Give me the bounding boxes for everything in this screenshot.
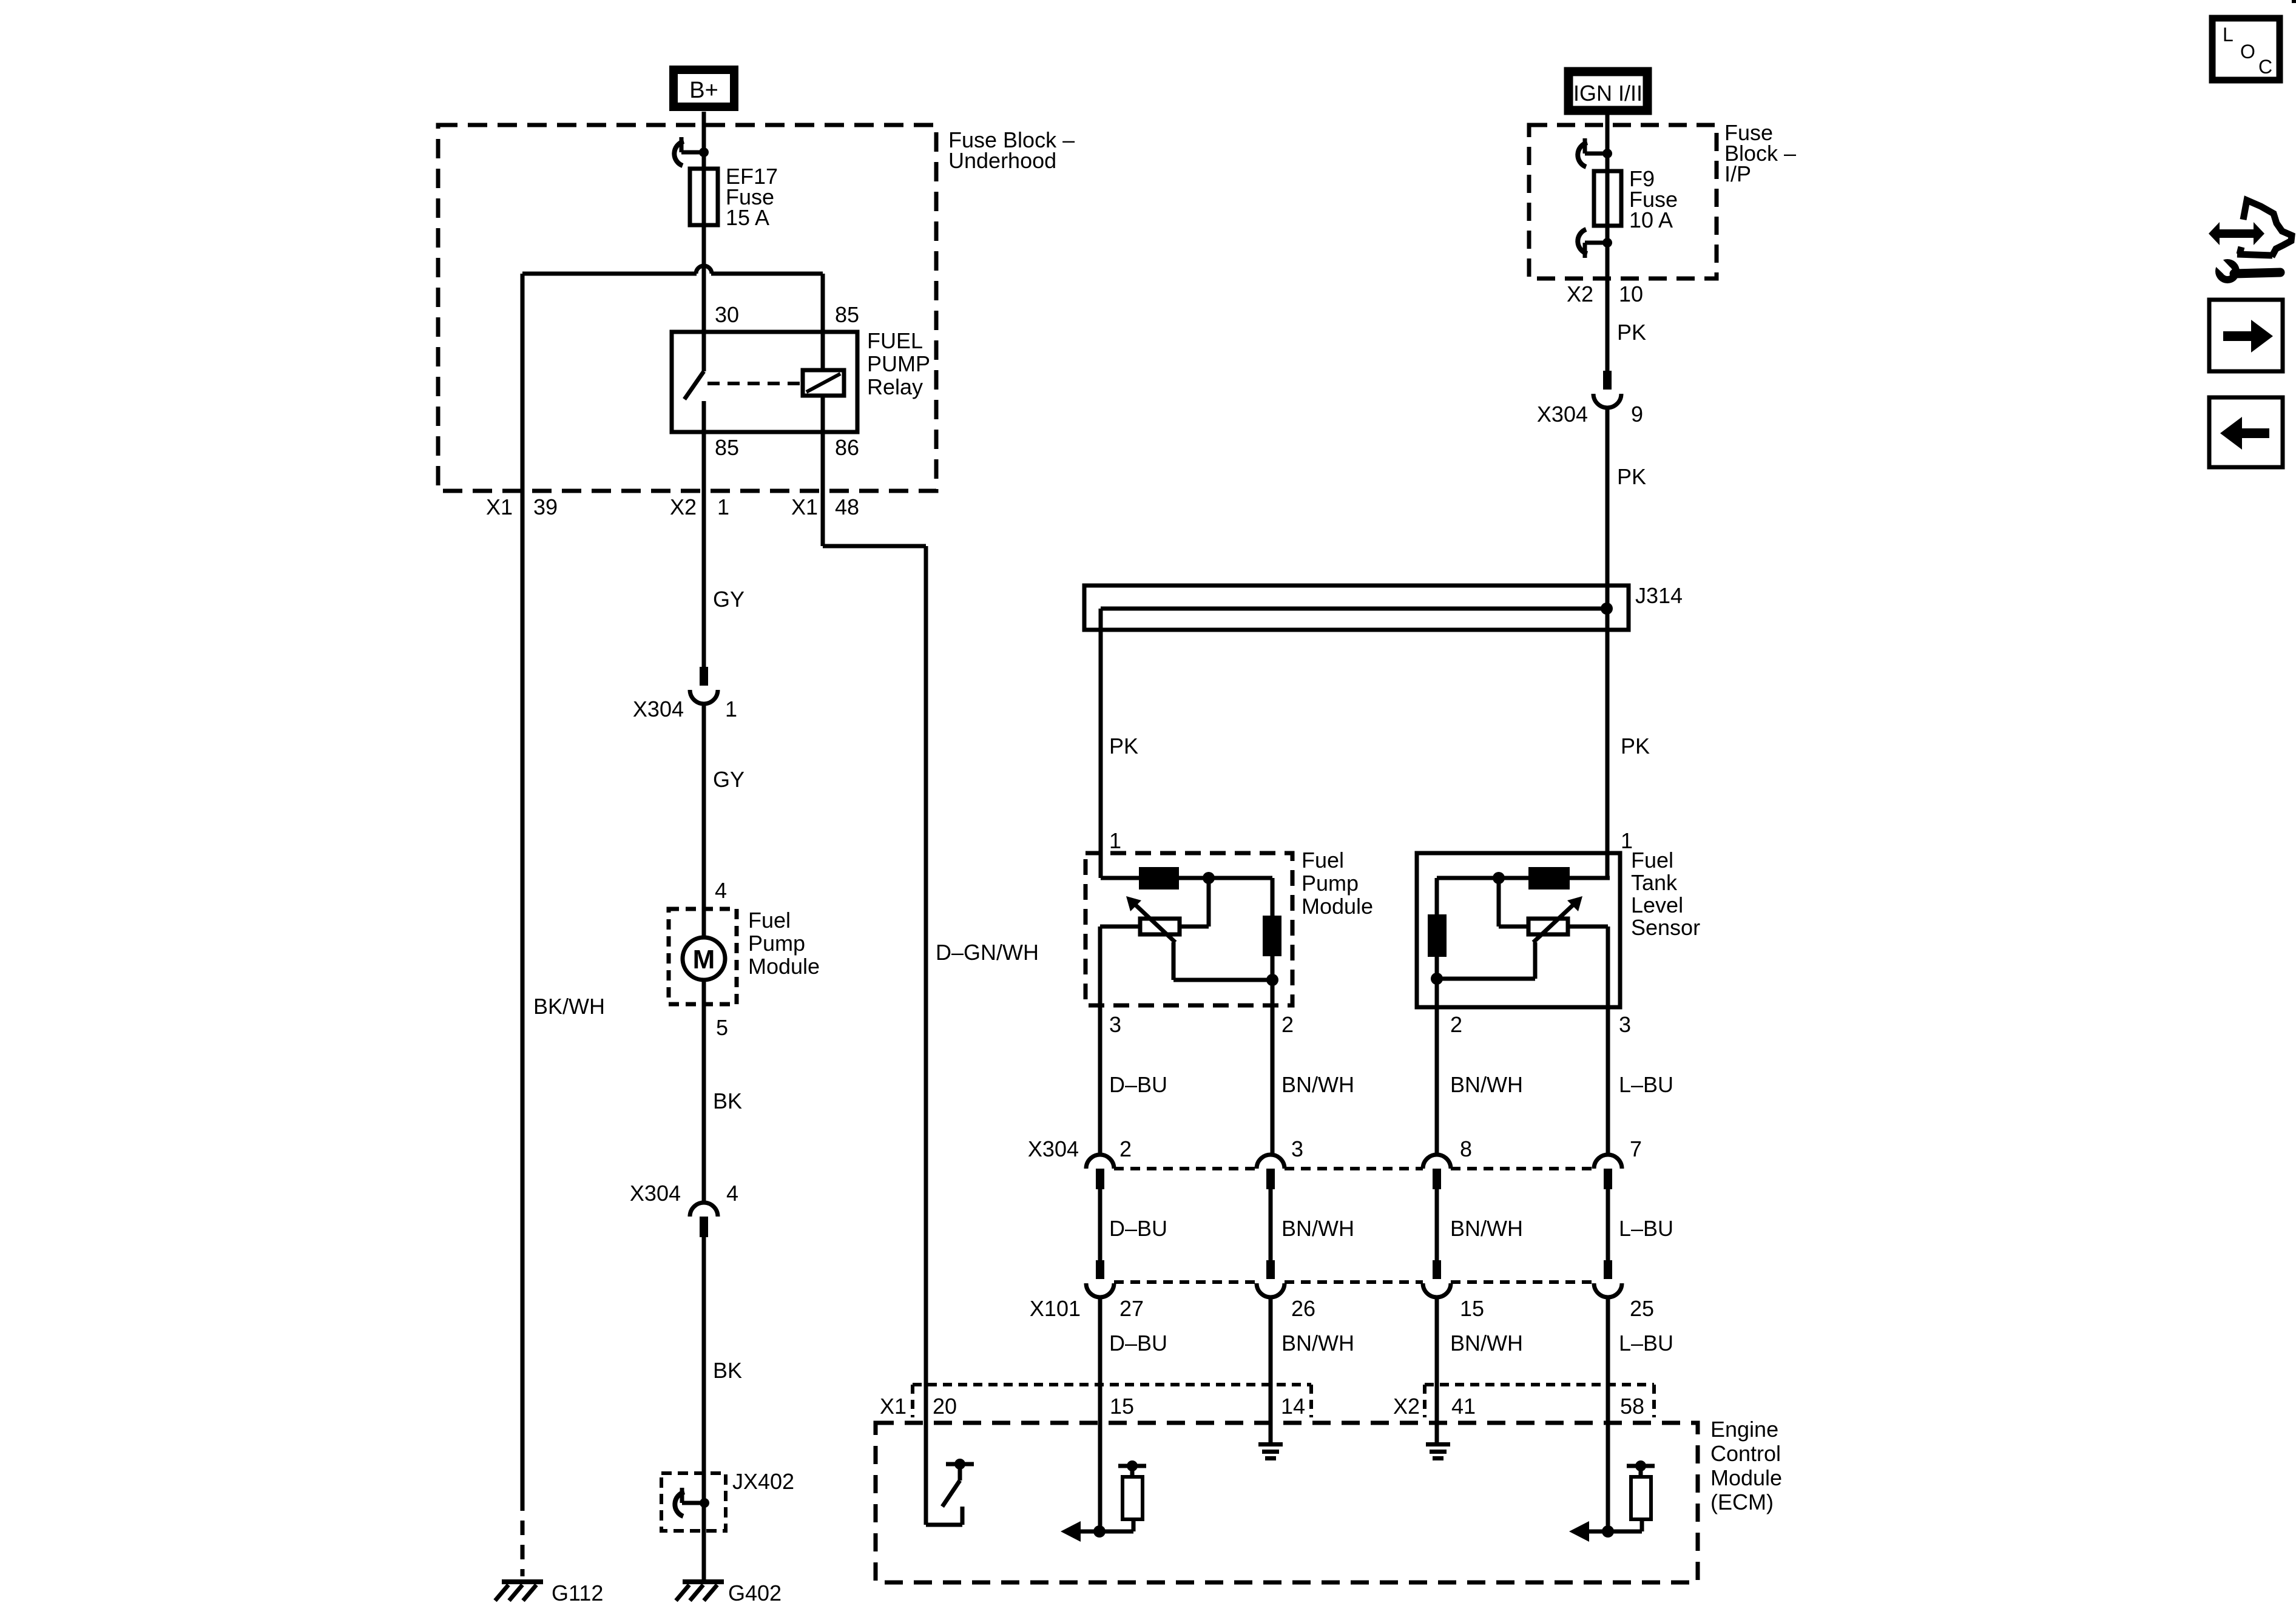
svg-text:15: 15 (1110, 1394, 1134, 1419)
svg-text:Tank: Tank (1631, 870, 1678, 895)
svg-text:Relay: Relay (867, 374, 923, 399)
svg-text:15: 15 (1460, 1296, 1484, 1321)
svg-text:L: L (2223, 24, 2234, 46)
svg-text:PK: PK (1621, 734, 1650, 758)
svg-text:39: 39 (533, 495, 558, 519)
svg-text:41: 41 (1451, 1394, 1476, 1419)
svg-text:X1: X1 (486, 495, 513, 519)
svg-text:10 A: 10 A (1629, 208, 1673, 232)
svg-text:Fuel: Fuel (748, 908, 791, 933)
svg-text:X2: X2 (1393, 1394, 1420, 1419)
svg-text:BN/WH: BN/WH (1450, 1331, 1523, 1355)
svg-text:X101: X101 (1030, 1296, 1081, 1321)
svg-text:C: C (2258, 56, 2272, 78)
svg-text:G112: G112 (552, 1581, 603, 1605)
svg-text:20: 20 (933, 1394, 957, 1419)
svg-text:X2: X2 (670, 495, 697, 519)
svg-text:14: 14 (1281, 1394, 1305, 1419)
svg-text:Underhood: Underhood (948, 148, 1056, 173)
svg-text:Fuel: Fuel (1631, 848, 1673, 873)
svg-text:D–BU: D–BU (1109, 1072, 1167, 1097)
svg-text:G402: G402 (728, 1581, 782, 1605)
svg-text:Sensor: Sensor (1631, 915, 1700, 940)
svg-text:GY: GY (713, 767, 745, 792)
svg-text:Pump: Pump (1302, 871, 1359, 896)
svg-text:30: 30 (715, 302, 739, 327)
svg-text:1: 1 (1109, 828, 1121, 853)
svg-text:1: 1 (725, 697, 737, 721)
svg-text:J314: J314 (1635, 583, 1683, 608)
svg-text:86: 86 (835, 435, 859, 460)
svg-text:9: 9 (1631, 402, 1643, 427)
svg-text:25: 25 (1630, 1296, 1654, 1321)
svg-text:BN/WH: BN/WH (1450, 1072, 1523, 1097)
svg-text:X304: X304 (633, 697, 684, 721)
svg-text:Module: Module (748, 954, 820, 979)
svg-text:3: 3 (1619, 1012, 1631, 1037)
svg-text:X304: X304 (1537, 402, 1588, 427)
svg-text:BK: BK (713, 1358, 742, 1383)
svg-text:L–BU: L–BU (1619, 1072, 1673, 1097)
svg-text:4: 4 (726, 1181, 738, 1206)
svg-text:15 A: 15 A (726, 205, 769, 230)
svg-text:5: 5 (716, 1015, 728, 1040)
svg-text:(ECM): (ECM) (1710, 1490, 1774, 1514)
svg-text:85: 85 (835, 302, 859, 327)
svg-text:Engine: Engine (1710, 1417, 1778, 1442)
svg-text:JX402: JX402 (732, 1469, 794, 1494)
svg-text:BN/WH: BN/WH (1450, 1216, 1523, 1241)
svg-text:PK: PK (1617, 464, 1646, 489)
svg-text:7: 7 (1630, 1136, 1642, 1161)
svg-text:85: 85 (715, 435, 739, 460)
svg-text:Pump: Pump (748, 931, 805, 956)
svg-text:L–BU: L–BU (1619, 1331, 1673, 1355)
svg-text:2: 2 (1281, 1012, 1294, 1037)
svg-text:X304: X304 (630, 1181, 681, 1206)
svg-text:48: 48 (835, 495, 859, 519)
svg-text:D–BU: D–BU (1109, 1331, 1167, 1355)
svg-text:FUEL: FUEL (867, 328, 923, 353)
svg-text:Module: Module (1302, 894, 1373, 919)
svg-text:BK/WH: BK/WH (533, 994, 605, 1019)
svg-text:PK: PK (1617, 320, 1646, 345)
svg-text:D–GN/WH: D–GN/WH (936, 940, 1039, 965)
svg-text:Fuel: Fuel (1302, 848, 1344, 873)
svg-text:BN/WH: BN/WH (1281, 1331, 1354, 1355)
svg-text:BN/WH: BN/WH (1281, 1216, 1354, 1241)
svg-text:L–BU: L–BU (1619, 1216, 1673, 1241)
svg-text:B+: B+ (689, 78, 718, 103)
svg-text:PK: PK (1109, 734, 1138, 758)
svg-text:3: 3 (1109, 1012, 1121, 1037)
svg-text:2: 2 (1450, 1012, 1462, 1037)
svg-text:26: 26 (1291, 1296, 1315, 1321)
svg-text:PUMP: PUMP (867, 351, 930, 376)
svg-text:D–BU: D–BU (1109, 1216, 1167, 1241)
svg-text:3: 3 (1291, 1136, 1303, 1161)
svg-text:Module: Module (1710, 1465, 1782, 1490)
svg-text:27: 27 (1119, 1296, 1144, 1321)
svg-text:Control: Control (1710, 1441, 1781, 1466)
svg-text:X1: X1 (880, 1394, 907, 1419)
svg-text:2: 2 (1119, 1136, 1132, 1161)
svg-text:Level: Level (1631, 893, 1683, 917)
svg-text:BN/WH: BN/WH (1281, 1072, 1354, 1097)
svg-text:O: O (2240, 41, 2255, 62)
svg-text:58: 58 (1620, 1394, 1644, 1419)
svg-text:M: M (693, 945, 715, 974)
svg-text:10: 10 (1619, 282, 1643, 306)
svg-text:X2: X2 (1567, 282, 1593, 306)
svg-text:4: 4 (715, 878, 727, 903)
svg-text:BK: BK (713, 1089, 742, 1113)
svg-text:1: 1 (717, 495, 729, 519)
svg-text:IGN I/II: IGN I/II (1573, 81, 1643, 106)
svg-text:X1: X1 (791, 495, 818, 519)
svg-text:GY: GY (713, 587, 745, 612)
svg-text:X304: X304 (1028, 1136, 1079, 1161)
svg-text:8: 8 (1460, 1136, 1472, 1161)
svg-text:I/P: I/P (1724, 161, 1751, 186)
